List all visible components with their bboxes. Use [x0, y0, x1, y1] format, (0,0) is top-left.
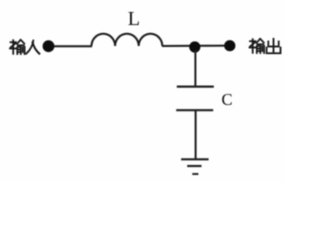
svg-text:L: L — [128, 8, 140, 30]
svg-text:C: C — [222, 90, 233, 109]
